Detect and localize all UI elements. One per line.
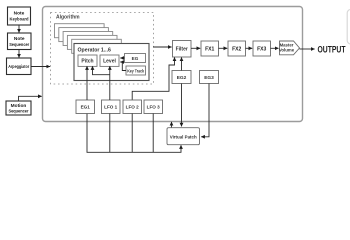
operator stack box 2: [72, 39, 122, 53]
wire Note Sequencer to Arpeggiator: [18, 50, 20, 58]
operator stack box 3: [67, 35, 117, 49]
block FX3: [253, 41, 271, 56]
synth outer body box: [43, 7, 303, 122]
block Pitch: [78, 55, 97, 66]
block LFO 1: [102, 100, 121, 114]
wire LFO1 branch to Pitch: [93, 66, 110, 75]
wire LFO2 to Filter: [132, 57, 174, 100]
block EG2: [172, 71, 191, 84]
wire Filter to FX1: [191, 47, 200, 49]
block Virtual Patch: [167, 128, 200, 145]
wire Algorithm to Filter: [153, 46, 172, 48]
svg-text:Motion: Motion: [11, 103, 27, 109]
svg-text:EG2: EG2: [177, 75, 187, 81]
svg-text:Algorithm: Algorithm: [56, 15, 80, 21]
wire EG to Level: [120, 57, 124, 59]
svg-text:LFO 3: LFO 3: [147, 105, 160, 110]
svg-text:Note: Note: [14, 36, 25, 42]
svg-text:Key Track: Key Track: [127, 69, 145, 74]
svg-text:LFO 2: LFO 2: [126, 105, 139, 110]
block LFO 2: [123, 100, 142, 114]
svg-text:Filter: Filter: [176, 46, 188, 52]
wire Master Volume to OUTPUT: [300, 48, 315, 50]
block Key Track: [126, 66, 146, 75]
operator stack box 4: [63, 32, 113, 46]
wire EG2 to Virtual Patch: [181, 84, 183, 127]
wire FX1 to FX2: [219, 47, 228, 49]
wire EG3 to Virtual Patch: [201, 84, 209, 137]
wire LFO1 to Level: [109, 66, 111, 100]
dashed Algorithm container: [51, 13, 154, 85]
svg-text:Virtual Patch: Virtual Patch: [170, 135, 197, 141]
wire FX3 to Master Volume: [271, 47, 279, 49]
block Filter: [173, 41, 192, 58]
block Arpeggiator: [7, 58, 32, 75]
wire EG1 to modulation bus and Virtual Patch: [87, 114, 181, 153]
operator stack box 6 (rear): [55, 24, 105, 38]
wire EG2 to Filter: [181, 57, 183, 70]
wire LFO3 drop to bus: [152, 114, 154, 153]
svg-text:EG: EG: [132, 56, 139, 61]
svg-text:Volume: Volume: [279, 48, 295, 53]
svg-text:LFO 1: LFO 1: [104, 105, 117, 110]
phantom box cropped at right edge: [347, 10, 350, 45]
wire Key Track to Level: [120, 62, 126, 71]
svg-text:Pitch: Pitch: [81, 59, 93, 65]
svg-text:OUTPUT: OUTPUT: [318, 45, 346, 56]
svg-text:FX1: FX1: [205, 46, 214, 52]
block Note Sequencer: [8, 33, 32, 50]
block Operator 1...6 (front): [74, 44, 149, 81]
wire Arpeggiator to Algorithm: [31, 66, 50, 68]
block Level: [100, 55, 119, 66]
svg-text:Level: Level: [103, 59, 116, 65]
block EG (operator): [125, 54, 146, 63]
svg-text:EG3: EG3: [204, 75, 214, 81]
block EG3: [200, 71, 219, 84]
wire Note Keyboard to Note Sequencer: [18, 25, 20, 33]
block Master Volume: [279, 41, 300, 55]
svg-text:Sequencer: Sequencer: [9, 109, 29, 115]
block LFO 3: [144, 100, 163, 114]
svg-text:Arpeggiator: Arpeggiator: [8, 64, 29, 69]
svg-text:Operator 1...6: Operator 1...6: [78, 48, 112, 54]
svg-text:EG1: EG1: [81, 105, 91, 110]
block Note Keyboard: [8, 7, 31, 25]
svg-text:Keyboard: Keyboard: [10, 17, 29, 23]
block FX1: [201, 41, 219, 56]
wire EG1 to Pitch: [86, 66, 88, 100]
block EG1: [76, 100, 95, 114]
operator stack box 5: [59, 28, 109, 42]
wire FX2 to FX3: [246, 47, 253, 49]
block Motion Sequencer: [6, 101, 31, 115]
svg-text:FX3: FX3: [257, 46, 266, 52]
wire LFO2 drop to bus: [131, 114, 133, 153]
svg-text:Sequencer: Sequencer: [9, 42, 29, 48]
svg-text:FX2: FX2: [232, 46, 241, 52]
wire LFO1 drop to bus: [109, 114, 111, 153]
wire Motion Sequencer to synth body: [19, 96, 42, 101]
block FX2: [228, 41, 246, 56]
wire Virtual Patch up to synth body: [171, 122, 173, 128]
svg-text:Note: Note: [14, 11, 25, 17]
